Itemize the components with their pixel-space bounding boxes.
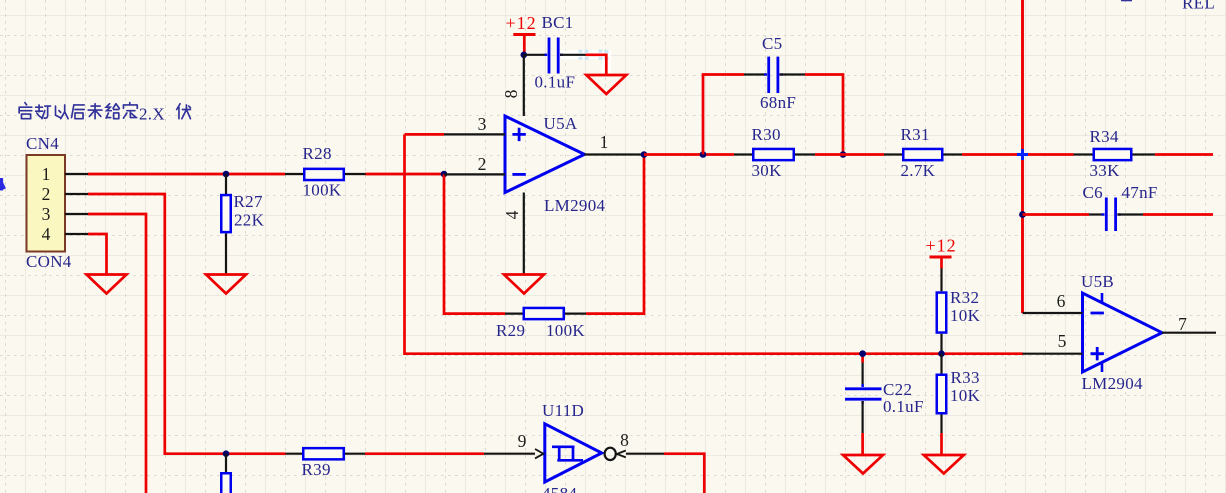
pin 4 <box>42 224 88 244</box>
pin 1 <box>42 164 88 184</box>
wire highlight (selected wire halo) <box>561 50 609 74</box>
svg-text:7: 7 <box>1178 314 1187 334</box>
svg-text:3: 3 <box>478 114 487 134</box>
power +12 top <box>506 13 537 55</box>
ground below R27 <box>206 275 246 294</box>
U5B pin 6 <box>1023 291 1083 313</box>
svg-text:REL: REL <box>1182 0 1215 13</box>
resistor R39 <box>286 448 366 479</box>
note text "启动以后未给定2.X 伏" <box>19 103 190 119</box>
junction cross marker <box>1017 149 1028 160</box>
node junction divider mid <box>938 350 945 357</box>
power +12 divider <box>926 236 957 269</box>
resistor R31 <box>884 125 962 180</box>
svg-text:U11D: U11D <box>542 401 584 420</box>
U5B pin 7 output <box>1162 314 1216 334</box>
wire R39 to U11D <box>365 452 484 455</box>
svg-text:4: 4 <box>502 210 522 219</box>
svg-text:30K: 30K <box>752 161 783 180</box>
svg-text:2.X: 2.X <box>139 105 165 124</box>
node junction pin2 <box>441 171 448 178</box>
svg-text:9: 9 <box>518 431 527 451</box>
U11D pin 8 <box>617 430 664 457</box>
svg-text:4: 4 <box>42 224 51 244</box>
svg-text:4584: 4584 <box>542 484 577 493</box>
wire main vertical net <box>1021 0 1024 313</box>
svg-text:47nF: 47nF <box>1122 183 1158 202</box>
U5A pin 4 <box>502 193 524 275</box>
op-amp U5A <box>505 114 605 215</box>
svg-text:6: 6 <box>1057 291 1066 311</box>
ground below C22 <box>843 455 883 474</box>
svg-text:2: 2 <box>478 154 487 174</box>
net label REL <box>1182 0 1215 13</box>
svg-text:CON4: CON4 <box>26 252 72 271</box>
node junction divider-wire left <box>859 350 866 357</box>
svg-text:LM2904: LM2904 <box>544 196 605 215</box>
svg-text:R32: R32 <box>950 288 979 307</box>
svg-text:+12: +12 <box>926 236 957 256</box>
U5B pin 5 <box>1023 331 1083 354</box>
wire C6 right <box>1143 213 1213 216</box>
node junction BC1 <box>521 52 528 59</box>
svg-text:100K: 100K <box>303 181 342 200</box>
svg-text:BC1: BC1 <box>542 13 574 32</box>
resistor R29 <box>496 308 586 340</box>
resistor R33 <box>937 354 981 455</box>
svg-text:2.7K: 2.7K <box>901 161 936 180</box>
svg-text:68nF: 68nF <box>760 93 796 112</box>
svg-text:R33: R33 <box>951 368 980 387</box>
resistor R40 partial <box>221 473 231 493</box>
wire R31 to R34 <box>962 153 1074 156</box>
wire CN4 pin2 to R39 row <box>88 194 286 454</box>
top sliver <box>1121 0 1132 1</box>
capacitor C5 <box>744 34 805 112</box>
wire CN4 pin3 down <box>88 214 146 493</box>
wire R28 to U5A pin2 <box>366 173 445 176</box>
svg-text:0.1uF: 0.1uF <box>535 73 576 92</box>
wire U11D output down <box>664 454 704 493</box>
svg-text:R39: R39 <box>302 460 331 479</box>
U5A pin 2 <box>444 154 505 174</box>
note text latin part <box>139 105 165 124</box>
U11D pin 9 <box>484 431 544 458</box>
ground below CN4 pin4 <box>87 275 127 294</box>
svg-text:R30: R30 <box>752 125 781 144</box>
connector CN4 body <box>27 155 66 252</box>
port fragment N <box>0 178 5 191</box>
svg-text:3: 3 <box>42 204 51 224</box>
connector CN4 label <box>26 134 59 153</box>
resistor R32 <box>937 269 981 354</box>
svg-text:LM2904: LM2904 <box>1082 374 1144 393</box>
svg-text:22K: 22K <box>234 211 265 230</box>
pin 3 <box>42 204 88 224</box>
wire pin2 run to CN4 area crossing (pin3 vertical) <box>405 134 1024 353</box>
ground BC1 <box>586 75 626 94</box>
svg-text:8: 8 <box>620 430 629 450</box>
svg-text:0.1uF: 0.1uF <box>883 397 924 416</box>
svg-text:R27: R27 <box>234 192 263 211</box>
wire to C6 <box>1023 213 1090 216</box>
inverter U11D <box>542 401 602 493</box>
svg-text:R28: R28 <box>303 144 332 163</box>
U5A pin 1 output <box>585 132 645 155</box>
op-amp U5B <box>1081 272 1162 393</box>
resistor R27 <box>221 174 264 274</box>
svg-text:C5: C5 <box>762 34 782 53</box>
svg-text:33K: 33K <box>1090 161 1121 180</box>
pin 2 <box>42 184 88 204</box>
svg-text:2: 2 <box>42 184 51 204</box>
svg-text:U5B: U5B <box>1081 272 1114 291</box>
node junction C6 <box>1019 211 1026 218</box>
node junction R27 top <box>223 171 230 178</box>
ground below U5A pin4 <box>504 275 544 294</box>
svg-text:100K: 100K <box>546 321 585 340</box>
svg-text:8: 8 <box>501 89 521 98</box>
node junction output <box>641 151 648 158</box>
svg-text:5: 5 <box>1058 331 1067 351</box>
svg-text:CN4: CN4 <box>26 134 59 153</box>
node junction C5 right <box>840 151 847 158</box>
resistor R34 <box>1074 127 1156 180</box>
wire CN4 pin4 to ground <box>88 234 107 274</box>
node junction C5 left <box>700 151 707 158</box>
wire BC1 to ground <box>586 55 607 75</box>
svg-text:R34: R34 <box>1090 127 1119 146</box>
wire R39 row junction stub <box>223 450 230 472</box>
ground below R33 <box>924 455 964 474</box>
svg-text:10K: 10K <box>950 306 981 325</box>
resistor R28 <box>285 144 366 200</box>
wire R30 to R31 <box>815 153 884 156</box>
wire output to R30 <box>644 153 734 156</box>
wire pin2 node down to R29 <box>444 174 505 314</box>
svg-text:+12: +12 <box>506 13 537 33</box>
node junction C22 top <box>859 350 866 357</box>
U5A pin 8 <box>501 55 524 116</box>
svg-text:1: 1 <box>600 132 609 152</box>
svg-text:1: 1 <box>42 164 51 184</box>
wire C5 loop <box>703 75 843 155</box>
svg-text:R31: R31 <box>901 125 930 144</box>
svg-text:C6: C6 <box>1083 183 1103 202</box>
capacitor C22 <box>845 354 924 455</box>
U11D output bubble <box>605 448 616 460</box>
wire R34 right <box>1155 153 1213 156</box>
resistor R30 <box>734 125 815 180</box>
U5A pin 3 <box>444 114 505 134</box>
svg-text:10K: 10K <box>950 386 981 405</box>
svg-text:R29: R29 <box>496 321 525 340</box>
capacitor C6 <box>1083 183 1158 231</box>
wire pin1 to R28 <box>88 173 285 176</box>
connector CON4 value label <box>26 252 72 271</box>
wire R29 to output node <box>586 155 644 314</box>
svg-text:U5A: U5A <box>544 114 578 133</box>
capacitor BC1 <box>524 13 586 92</box>
